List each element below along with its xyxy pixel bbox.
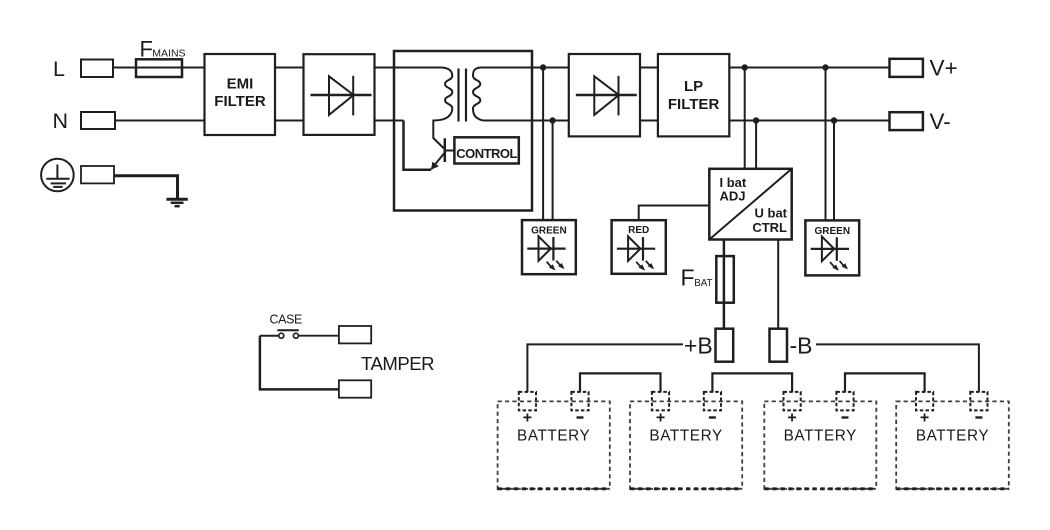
svg-text:LP: LP — [684, 78, 703, 95]
svg-text:+: + — [656, 410, 665, 427]
svg-text:+B: +B — [684, 333, 713, 359]
svg-text:BAT: BAT — [694, 278, 712, 289]
svg-text:RED: RED — [628, 225, 649, 236]
svg-text:GREEN: GREEN — [815, 226, 851, 237]
svg-text:TAMPER: TAMPER — [361, 353, 434, 374]
svg-text:FILTER: FILTER — [668, 96, 720, 113]
svg-text:BATTERY: BATTERY — [784, 428, 857, 445]
svg-text:+: + — [920, 410, 929, 427]
svg-text:N: N — [53, 109, 69, 133]
svg-text:BATTERY: BATTERY — [916, 428, 989, 445]
svg-text:CASE: CASE — [270, 313, 303, 327]
svg-text:+: + — [787, 410, 796, 427]
svg-text:CONTROL: CONTROL — [456, 146, 517, 161]
svg-text:CTRL: CTRL — [752, 220, 787, 235]
svg-text:F: F — [140, 37, 153, 62]
svg-text:GREEN: GREEN — [531, 226, 567, 237]
svg-text:F: F — [681, 265, 695, 291]
svg-text:V-: V- — [930, 109, 951, 134]
svg-text:BATTERY: BATTERY — [649, 428, 722, 445]
svg-text:V+: V+ — [930, 56, 958, 81]
svg-text:MAINS: MAINS — [152, 48, 185, 60]
svg-text:-B: -B — [790, 333, 813, 359]
svg-text:ADJ: ADJ — [720, 189, 746, 204]
svg-text:+: + — [523, 410, 532, 427]
svg-text:FILTER: FILTER — [214, 93, 266, 110]
svg-text:U bat: U bat — [755, 206, 788, 221]
svg-text:BATTERY: BATTERY — [517, 428, 590, 445]
svg-text:L: L — [53, 57, 65, 81]
svg-text:EMI: EMI — [227, 76, 254, 93]
